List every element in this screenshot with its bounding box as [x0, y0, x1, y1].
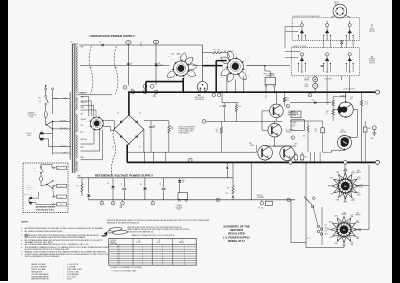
svg-text:R3: R3: [214, 50, 216, 52]
svg-text:R9: R9: [258, 208, 260, 210]
svg-text:TP: TP: [155, 42, 157, 44]
wire: [128, 92, 130, 115]
svg-text:* CONNECT LUG NUMBERS 4-10 TO: * CONNECT LUG NUMBERS 4-10 TO METER.: [110, 267, 143, 269]
svg-text:R16: R16: [264, 73, 267, 75]
svg-text:SLIGHTLY FROM THE CIRCUITS IN: SLIGHTLY FROM THE CIRCUITS IN YOUR ACTUA…: [25, 248, 70, 251]
svg-text:FOR 234-250 V.A.C.: FOR 234-250 V.A.C.: [36, 209, 55, 212]
svg-text:R33: R33: [351, 97, 354, 99]
svg-text:WHT: WHT: [325, 228, 328, 230]
specifications list: [31, 263, 82, 281]
wire: [361, 92, 363, 100]
wire: [152, 152, 154, 162]
wire: [332, 97, 334, 100]
svg-text:C10: C10: [153, 125, 156, 127]
svg-text:X3: X3: [250, 143, 252, 145]
svg-text:VOLT: VOLT: [351, 200, 355, 202]
svg-text:CURRENT: CURRENT: [369, 59, 376, 61]
wire: [333, 109, 338, 111]
svg-text:R27: R27: [315, 129, 318, 131]
pilot lamp: [333, 4, 347, 18]
svg-text:YEL-BLK: YEL-BLK: [81, 119, 87, 121]
wire: [321, 207, 323, 245]
svg-text:YEL: YEL: [81, 114, 84, 116]
alternate wiring box: [23, 163, 68, 213]
wire: [345, 92, 347, 102]
wire: [216, 60, 226, 62]
svg-text:BLU: BLU: [330, 178, 333, 180]
svg-text:D: D: [190, 160, 191, 162]
svg-text:R22: R22: [286, 98, 289, 100]
svg-text:BLK-RED: BLK-RED: [57, 204, 63, 206]
wire: [155, 45, 157, 85]
svg-text:NOTES:: NOTES:: [21, 222, 29, 224]
svg-text:RED-YEL: RED-YEL: [81, 139, 87, 141]
wire: [341, 76, 343, 80]
svg-text:D9: D9: [140, 184, 142, 186]
svg-text:470K: 470K: [247, 75, 250, 77]
svg-text:GRN: GRN: [325, 234, 328, 236]
svg-text:SWITCH: SWITCH: [369, 62, 375, 64]
svg-text:S3: S3: [181, 240, 183, 242]
transistor X2: [268, 123, 282, 137]
resistor R21: [220, 121, 222, 127]
svg-text:MODEL IP-17: MODEL IP-17: [228, 239, 245, 243]
wire: [314, 76, 316, 77]
node E2: [286, 104, 290, 108]
capacitor C5: [123, 178, 125, 188]
svg-text:AS 20% FROM THE MARKED VALUE W: AS 20% FROM THE MARKED VALUE WITHOUT AFF…: [25, 236, 87, 239]
rotary switch S4: [327, 212, 362, 247]
wire: [256, 145, 258, 152]
svg-text:BLK-GRN: BLK-GRN: [60, 128, 66, 130]
wire: [344, 196, 346, 202]
wire: [128, 144, 130, 145]
svg-text:115V: 115V: [114, 68, 117, 70]
svg-text:C: C: [204, 121, 205, 123]
svg-text:125: 125: [153, 127, 156, 129]
test point TP1: [126, 41, 131, 45]
svg-text:YEL: YEL: [330, 194, 333, 196]
wire: [215, 61, 217, 93]
svg-text:TP: TP: [128, 42, 130, 44]
output terminal minus: [376, 160, 380, 164]
svg-text:D2: D2: [158, 63, 160, 65]
svg-text:BLU: BLU: [131, 89, 134, 91]
meter M1: [313, 77, 318, 82]
svg-text:BRN: BRN: [81, 157, 84, 159]
wire: [81, 106, 94, 117]
svg-text:WHT: WHT: [334, 243, 338, 245]
svg-text:BRN: BRN: [328, 186, 331, 188]
svg-text:0-15: 0-15: [356, 220, 359, 222]
diode D10: [179, 178, 181, 180]
resistor R8: [232, 162, 234, 185]
svg-text:150: 150: [356, 236, 359, 238]
switch connection table: [109, 238, 196, 265]
svg-text:SHUNT: SHUNT: [304, 86, 309, 88]
wire: [53, 120, 71, 122]
wire: [354, 229, 369, 231]
svg-text:F: F: [125, 87, 126, 89]
ground post: [372, 126, 376, 130]
svg-text:BLK-GRN: BLK-GRN: [57, 196, 63, 198]
wire: [53, 146, 71, 148]
svg-text:F-6: F-6: [118, 257, 120, 259]
svg-text:R24: R24: [291, 157, 294, 159]
svg-text:VOLT: VOLT: [357, 194, 361, 196]
svg-text:ON: ON: [34, 171, 36, 173]
svg-text:ALL CAPACITORS ARE IN MFD UNLE: ALL CAPACITORS ARE IN MFD UNLESS NOTED.: [25, 230, 64, 233]
diode D12: [314, 101, 316, 104]
wire: [76, 94, 112, 96]
svg-text:E: E: [309, 95, 310, 97]
wire: [127, 151, 256, 153]
AC plug P1: [39, 132, 42, 142]
resistor R24: [294, 155, 297, 160]
diode D9: [144, 178, 146, 187]
svg-text:S3: S3: [358, 170, 360, 172]
wire: [361, 106, 363, 163]
svg-text:R17: R17: [265, 96, 268, 98]
svg-text:15K: 15K: [326, 103, 328, 105]
meter shunt symbol: [340, 41, 343, 44]
svg-text:BLK-RED: BLK-RED: [60, 146, 66, 148]
svg-text:400: 400: [352, 198, 355, 200]
svg-text:SCHEMATIC OF THE: SCHEMATIC OF THE: [223, 224, 250, 228]
svg-text:FUNCTION: FUNCTION: [110, 243, 117, 245]
svg-text:K: K: [292, 137, 293, 139]
node G: [100, 201, 104, 205]
svg-text:BLU: BLU: [81, 132, 84, 134]
wire: [79, 44, 203, 46]
svg-text:0-50: 0-50: [358, 228, 361, 230]
wire: [144, 152, 146, 162]
notes list: [21, 222, 109, 259]
svg-text:SLOW-BLOW: SLOW-BLOW: [28, 114, 37, 116]
tube socket V2: [173, 61, 188, 76]
svg-text:T1: T1: [71, 42, 73, 44]
title block: [223, 224, 250, 243]
svg-text:R32: R32: [365, 102, 368, 104]
svg-text:V2: V2: [172, 54, 174, 56]
resistor R22: [284, 92, 286, 97]
capacitor C6: [163, 178, 165, 188]
resistor R25: [300, 155, 303, 160]
svg-text:10K FINE: 10K FINE: [340, 131, 346, 133]
svg-text:100: 100: [261, 208, 264, 210]
wire: [353, 109, 357, 111]
node F2 bus: [344, 161, 348, 165]
wire: [143, 129, 145, 152]
wire: [319, 152, 321, 162]
resistor R27: [321, 128, 325, 133]
svg-text:MINIMUM CONTROLS ARE LOCATED O: MINIMUM CONTROLS ARE LOCATED ON THE CHAS…: [25, 250, 107, 253]
node junction: [143, 85, 147, 89]
DC meter switch box: [285, 15, 360, 48]
svg-text:CONTROL: CONTROL: [110, 240, 117, 242]
svg-text:RED: RED: [81, 147, 84, 149]
wire: [243, 76, 245, 92]
svg-text:47K: 47K: [140, 45, 143, 47]
fuse F1: [45, 105, 47, 111]
svg-text:CONTROL: CONTROL: [176, 207, 183, 209]
svg-text:C18: C18: [219, 106, 222, 108]
svg-text:RED: RED: [81, 47, 84, 49]
wire: [144, 120, 169, 122]
wire: [305, 162, 307, 247]
node G: [131, 90, 135, 94]
wire: [45, 124, 47, 127]
wire: [53, 98, 71, 100]
svg-text:C5: C5: [120, 183, 122, 185]
resistor R3: [213, 52, 223, 54]
svg-text:C1: C1: [131, 63, 133, 65]
wire: [81, 130, 103, 160]
svg-text:LIMITER BIAS POWER SUPPLY: LIMITER BIAS POWER SUPPLY: [90, 34, 135, 38]
svg-text:YEL: YEL: [329, 237, 332, 239]
current voltage switch box: [285, 45, 360, 76]
resistor R26: [307, 121, 309, 126]
capacitor C1: [127, 62, 130, 64]
svg-text:GRN-YEL: GRN-YEL: [81, 102, 88, 104]
wire: [80, 65, 170, 67]
svg-text:H-8: H-8: [117, 261, 119, 263]
wire: [326, 76, 328, 101]
svg-text:METER: METER: [356, 215, 361, 217]
svg-text:GRN: GRN: [336, 199, 339, 201]
transistor X1: [270, 104, 284, 118]
zener reference block: [178, 193, 188, 200]
svg-text:L.V. POWER SUPPLY: L.V. POWER SUPPLY: [223, 235, 250, 239]
wire: [165, 152, 167, 162]
svg-text:D1: D1: [99, 42, 101, 44]
svg-text:BLK: BLK: [57, 168, 60, 170]
wire: [111, 130, 115, 177]
svg-text:C6: C6: [159, 183, 161, 185]
node J1: [188, 158, 192, 162]
svg-text:47K: 47K: [217, 50, 220, 52]
line selector switch: [52, 121, 53, 122]
wire: [234, 79, 236, 92]
wire: [306, 247, 344, 249]
potentiometer R34 fine: [338, 136, 352, 150]
svg-text:R25: R25: [304, 157, 307, 159]
relay block: [291, 111, 301, 118]
svg-text:50/60 c: 50/60 c: [27, 135, 32, 137]
svg-text:COIL: COIL: [292, 124, 295, 126]
line switch terminals: [317, 225, 320, 228]
svg-text:0.01%: 0.01%: [67, 279, 72, 281]
transistor X3: [258, 145, 273, 160]
bridge rectifier D3-D6: [112, 113, 144, 149]
svg-text:ALTERNATE WIRING: ALTERNATE WIRING: [36, 206, 56, 209]
wire: [127, 45, 129, 86]
svg-text:C-3: C-3: [117, 250, 119, 252]
svg-text:R34: R34: [341, 130, 344, 132]
svg-text:VOLT: VOLT: [357, 178, 361, 180]
diode D1: [102, 44, 104, 47]
svg-text:FRONT: FRONT: [341, 214, 346, 216]
svg-text:SWITCH: SWITCH: [369, 31, 375, 33]
diode D11: [226, 162, 228, 165]
svg-text:YEL: YEL: [167, 79, 170, 81]
wire: [265, 87, 267, 93]
svg-text:6.3V: 6.3V: [192, 59, 195, 61]
svg-text:D5: D5: [139, 147, 141, 149]
wire: [310, 152, 312, 162]
svg-text:PRE-SET: PRE-SET: [257, 195, 263, 197]
svg-text:1.5K: 1.5K: [365, 103, 368, 105]
diode D8: [112, 178, 114, 185]
svg-text:470: 470: [286, 100, 289, 102]
svg-text:REFERENCE VOLTAGE POWER SUP: REFERENCE VOLTAGE POWER SUPPLY: [95, 173, 153, 177]
svg-text:115V: 115V: [89, 68, 92, 70]
svg-text:E-5: E-5: [117, 255, 119, 257]
wire: [290, 200, 292, 243]
svg-text:GRN: GRN: [81, 97, 84, 99]
diode D3: [155, 64, 157, 67]
svg-text:2K: 2K: [350, 99, 352, 101]
svg-text:ALL RESISTORS ARE RATED IN OHM: ALL RESISTORS ARE RATED IN OHMS AND 1/2 …: [25, 227, 104, 230]
transistor X4: [280, 146, 295, 161]
svg-text:BLK-RED: BLK-RED: [57, 186, 63, 188]
svg-text:4K: 4K: [326, 113, 328, 115]
svg-text:K: K: [152, 203, 153, 205]
wire: [81, 131, 95, 145]
svg-text:MAX RIPPLE FACTOR: MAX RIPPLE FACTOR: [31, 278, 49, 281]
svg-text:R6: R6: [182, 182, 184, 184]
svg-text:2N442: 2N442: [250, 145, 254, 147]
wire B+ bus: [129, 91, 375, 93]
node A: [216, 198, 220, 202]
wire: [89, 46, 93, 94]
svg-text:R7: R7: [171, 126, 173, 128]
node E: [308, 93, 312, 97]
svg-text:BLK-RED: BLK-RED: [60, 121, 66, 123]
wire: [261, 111, 263, 130]
svg-text:GND: GND: [371, 138, 374, 140]
wire: [145, 82, 147, 93]
svg-text:R1: R1: [140, 43, 142, 45]
svg-text:OB2: OB2: [198, 95, 201, 97]
svg-text:S1: S1: [371, 25, 373, 27]
svg-text:BRN: BRN: [327, 229, 330, 231]
wire: [114, 46, 118, 94]
wire: [290, 120, 323, 122]
slide switch S5: [304, 197, 312, 205]
svg-text:S2: S2: [371, 57, 373, 59]
transformer T1: [70, 42, 78, 174]
svg-text:0-15: 0-15: [357, 177, 360, 179]
svg-text:SLOW-BLOW: SLOW-BLOW: [26, 186, 35, 188]
wire: [350, 136, 358, 138]
svg-text:SCREEN: SCREEN: [269, 73, 275, 75]
svg-text:RED-GRN: RED-GRN: [81, 93, 88, 95]
svg-text:.01: .01: [206, 61, 208, 63]
wire: [53, 152, 71, 154]
svg-text:D4: D4: [139, 113, 141, 115]
svg-text:D10: D10: [182, 180, 185, 182]
tube socket V1: [227, 58, 243, 74]
resistor R31: [332, 109, 334, 115]
svg-text:D8: D8: [107, 183, 109, 185]
svg-text:MILS: MILS: [157, 242, 160, 244]
resistor R36: [363, 127, 367, 132]
svg-text:REGULATED: REGULATED: [228, 231, 245, 235]
node C: [202, 120, 206, 124]
svg-text:BLK: BLK: [325, 225, 328, 227]
svg-text:S2: S2: [159, 240, 161, 242]
wire: [221, 92, 223, 103]
on-off switch SW1: [45, 95, 47, 97]
tube OB2 V3: [197, 82, 208, 93]
svg-text:YEL: YEL: [81, 125, 84, 127]
wire: [81, 101, 92, 116]
svg-text:D12: D12: [312, 99, 315, 101]
svg-text:METER: METER: [304, 79, 309, 81]
svg-text:METER: METER: [370, 29, 375, 31]
svg-text:BLU: BLU: [168, 56, 171, 58]
svg-text:G-7: G-7: [117, 259, 119, 261]
svg-text:CONN: CONN: [152, 96, 156, 98]
wire: [81, 97, 89, 117]
node K2: [291, 136, 295, 140]
svg-text:ON: ON: [39, 101, 41, 103]
wire: [53, 128, 71, 130]
svg-text:METER: METER: [334, 2, 339, 4]
svg-text:SWITCH DESIGNATED ON THE SCHEM: SWITCH DESIGNATED ON THE SCHEMATIC.: [25, 255, 61, 258]
svg-text:0-5: 0-5: [352, 171, 354, 173]
resistor R7: [168, 121, 170, 126]
svg-text:VOLT: VOLT: [359, 186, 363, 188]
node H: [111, 201, 115, 205]
svg-text:BLU: BLU: [329, 221, 332, 223]
svg-text:R8: R8: [227, 188, 229, 190]
wire: [52, 121, 54, 153]
wire: [269, 71, 271, 77]
svg-text:E: E: [287, 106, 288, 108]
svg-text:BLK: BLK: [64, 98, 67, 100]
svg-text:2.7K: 2.7K: [315, 131, 318, 133]
svg-text:NO. 10 RED: NO. 10 RED: [325, 78, 332, 80]
wire: [246, 65, 265, 67]
node K: [151, 201, 155, 205]
resistor R26 block: [291, 120, 305, 131]
wire: [78, 177, 234, 179]
svg-text:50 MV: 50 MV: [304, 84, 308, 86]
svg-text:R14: R14: [248, 57, 251, 59]
wire: [332, 106, 334, 110]
wire: [81, 131, 100, 151]
wire: [355, 185, 369, 187]
wire: [314, 152, 316, 162]
wire: [265, 145, 296, 147]
resistor R30: [332, 100, 334, 106]
svg-text:SWITCH: SWITCH: [306, 238, 311, 240]
svg-text:VOLT: VOLT: [351, 173, 355, 175]
wire: [323, 151, 332, 153]
svg-text:HEATHKIT: HEATHKIT: [230, 228, 244, 232]
diode D7: [88, 178, 90, 193]
wire: [226, 76, 228, 92]
svg-text:D-4: D-4: [117, 252, 119, 254]
svg-text:R19: R19: [238, 106, 241, 108]
wire: [52, 153, 54, 155]
wire: [291, 242, 306, 244]
wire: [193, 65, 211, 67]
svg-text:BRN: BRN: [78, 176, 81, 178]
wire junction dots: [128, 91, 366, 163]
